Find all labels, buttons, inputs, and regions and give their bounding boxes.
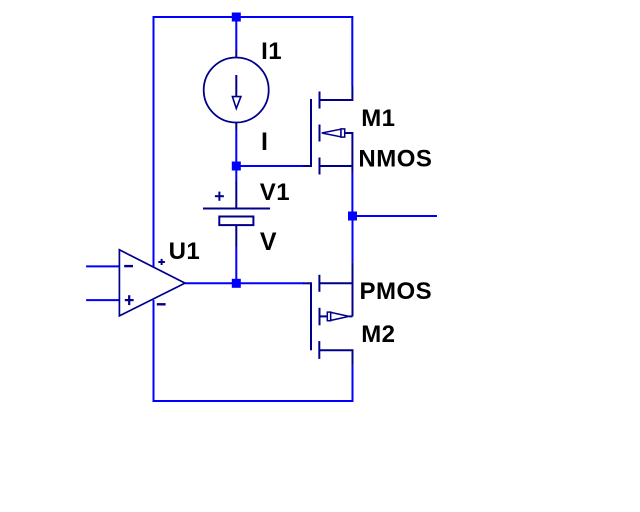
- wire output node to M2 source: [352, 215, 354, 262]
- pmos M2: [303, 262, 353, 365]
- svg-text:PMOS: PMOS: [360, 278, 433, 305]
- wire M2 drain to bottom rail: [352, 365, 354, 402]
- wire I1 to node below: [235, 130, 237, 168]
- wire output stub right: [352, 215, 437, 217]
- svg-text:U1: U1: [169, 238, 201, 265]
- node output (M1 source / M2 source): [348, 212, 357, 221]
- wire op-amp input stub bottom: [86, 299, 119, 301]
- wire op-amp input stub top: [86, 265, 119, 267]
- wire V1 top: [235, 165, 237, 181]
- wire bottom rail: [153, 400, 354, 402]
- nmos M1: [303, 86, 352, 175]
- wire V1 bottom: [235, 247, 237, 284]
- node I1-V1-gate junction: [232, 162, 241, 171]
- svg-text:M1: M1: [361, 105, 395, 132]
- current source I1: [204, 51, 269, 130]
- node top (I1 / rails junction): [232, 13, 241, 22]
- wire left rail lower (op-amp V- to bottom rail): [153, 300, 155, 402]
- wire op-amp output to M2 gate: [185, 282, 304, 284]
- svg-text:I: I: [261, 128, 268, 156]
- svg-text:NMOS: NMOS: [358, 145, 432, 172]
- wire M1 drain to top rail: [351, 16, 353, 86]
- wire top node to I1: [235, 16, 237, 51]
- wire left rail upper: [153, 16, 155, 267]
- battery V1: [203, 181, 270, 247]
- svg-text:V1: V1: [260, 179, 290, 206]
- op-amp U1: [119, 250, 185, 316]
- wire M1 source to output node: [351, 173, 353, 218]
- svg-text:V: V: [260, 228, 277, 256]
- node op-amp output / V1 minus junction: [232, 279, 241, 288]
- svg-text:I1: I1: [261, 38, 282, 65]
- svg-text:M2: M2: [361, 321, 395, 348]
- wire top rail: [153, 16, 354, 18]
- wire M1 gate: [236, 165, 303, 167]
